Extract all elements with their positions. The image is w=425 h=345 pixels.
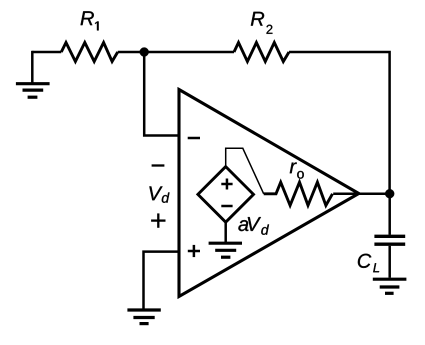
wire: non-inverting input stub bbox=[144, 252, 180, 309]
label aVd bbox=[238, 217, 269, 235]
wire: ground drop at left input bbox=[31, 51, 34, 84]
label: minus inside diamond bbox=[221, 205, 232, 208]
label R2 bbox=[251, 12, 273, 34]
label: plus inside diamond bbox=[221, 179, 232, 190]
label Vd bbox=[149, 186, 169, 202]
ground (top-left) bbox=[16, 84, 50, 98]
label: plus at non-inverting input bbox=[188, 245, 200, 257]
wire: R1 to R2 across top bbox=[118, 51, 234, 54]
label R1 bbox=[81, 11, 99, 30]
resistor R1 bbox=[61, 43, 117, 62]
node: output junction dot bbox=[385, 189, 394, 198]
wire: diamond top connector to r_o (thin) bbox=[226, 148, 264, 194]
resistor R2 bbox=[234, 43, 289, 62]
wire: C_L to ground bbox=[388, 246, 391, 278]
resistor r_o bbox=[264, 182, 333, 205]
wire: r_o to output node bbox=[333, 192, 389, 195]
label: minus of Vd (outside) bbox=[152, 164, 165, 166]
label: minus at inverting input bbox=[188, 137, 200, 140]
ground (below C_L) bbox=[373, 279, 407, 293]
label CL bbox=[358, 254, 379, 272]
label: plus of Vd (outside) bbox=[151, 213, 165, 227]
wire: inverting input feedback drop bbox=[144, 52, 179, 136]
capacitor C_L bbox=[374, 236, 405, 244]
label r_o bbox=[290, 162, 304, 178]
wire: output node down to C_L bbox=[388, 194, 391, 235]
ground (bottom-left, non-inverting input) bbox=[127, 310, 160, 324]
wire: diamond bottom to ground bbox=[224, 222, 227, 242]
wire: R2 to top-right corner and down to output bbox=[289, 52, 390, 194]
node: junction dot at inverting input bbox=[140, 48, 149, 57]
dependent source aVd (diamond) bbox=[198, 167, 254, 223]
wire: left stub from ground to R1 bbox=[32, 51, 61, 54]
ground (below dependent source) bbox=[209, 243, 242, 257]
op-amp U1 triangle body bbox=[179, 90, 359, 297]
